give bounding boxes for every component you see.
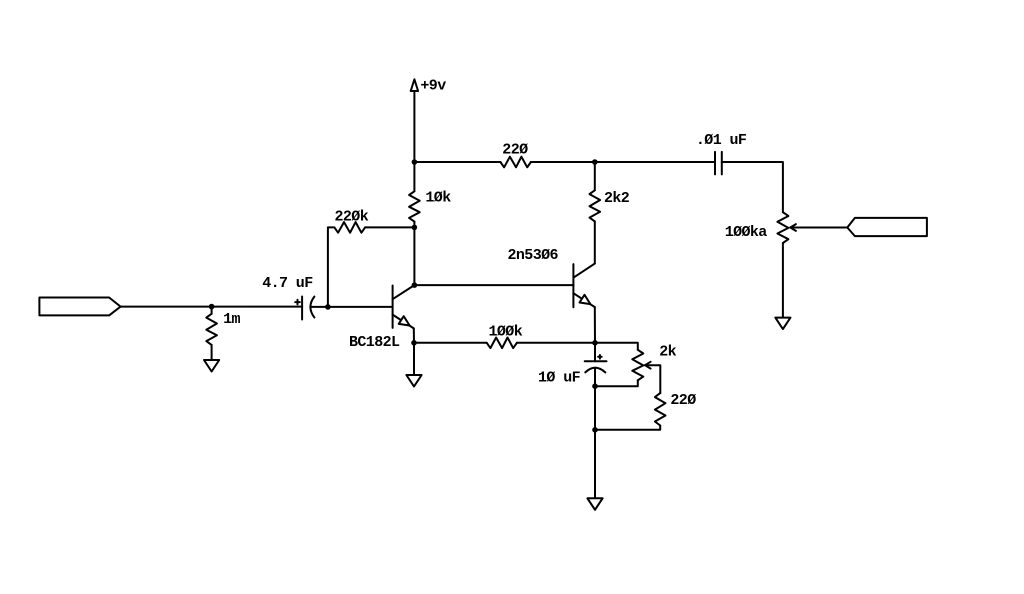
svg-text:1Ø uF: 1Ø uF <box>538 370 581 387</box>
wire 220 bottom to node <box>595 426 660 430</box>
svg-text:1m: 1m <box>223 311 240 328</box>
ground (input 1m) <box>204 360 219 372</box>
wire 220k down to base node <box>328 227 335 307</box>
wire node to 220k <box>365 226 414 228</box>
wire 220 to cap .01uF <box>531 161 715 163</box>
resistor 10k (vertical) <box>409 191 420 221</box>
svg-text:22Øk: 22Øk <box>335 208 369 225</box>
wire 10k to collector node <box>413 222 415 286</box>
capacitor .01 uF <box>715 152 722 175</box>
wire pot bottom to ground <box>782 243 784 318</box>
resistor 220 (bottom, vertical) <box>655 393 666 425</box>
wire 2n5306 emitter down <box>594 307 596 343</box>
wire emitter node to 100k <box>414 342 487 344</box>
svg-text:22Ø: 22Ø <box>502 142 528 159</box>
pot 2k wiper arrow <box>645 362 660 393</box>
resistor 220k (horizontal) <box>334 222 365 233</box>
wire node to 1m <box>211 307 213 314</box>
node emitter 2n5306 <box>592 340 598 346</box>
input connector <box>39 298 120 316</box>
wire base to transistor <box>328 306 393 308</box>
resistor 220 (top, horizontal) <box>500 157 531 168</box>
svg-text:1Øk: 1Øk <box>425 189 451 206</box>
node emitter BC182L <box>411 340 417 346</box>
svg-text:BC182L: BC182L <box>349 334 400 351</box>
resistor 100k (horizontal) <box>487 338 517 349</box>
node input / 1m <box>209 304 215 310</box>
wire node to 2k pot top <box>595 343 638 350</box>
capacitor 4.7 uF (polarized) <box>295 297 314 320</box>
wire bottom node chain <box>594 386 596 498</box>
svg-text:1ØØk: 1ØØk <box>489 323 523 340</box>
wire input to cap 4.7uF <box>121 306 303 308</box>
resistor 2k2 (vertical) <box>590 190 601 221</box>
output connector <box>847 218 927 236</box>
wire 2n5306 collector to 2k2 <box>594 221 596 263</box>
node base BC182L <box>325 304 331 310</box>
ground (emitter network) <box>587 498 602 510</box>
wire cap to base node <box>310 306 328 308</box>
wire cap to pot top <box>722 162 783 212</box>
ground (output pot) <box>775 318 790 330</box>
transistor BC182L <box>393 285 415 328</box>
wire 10uF to bottom node <box>594 369 596 386</box>
potentiometer 2k (element) <box>632 350 643 381</box>
wire emitter down <box>413 328 415 342</box>
node bottom junction <box>592 427 598 433</box>
wire 1m to ground <box>211 345 213 360</box>
svg-text:.Ø1 uF: .Ø1 uF <box>696 132 747 149</box>
wire 100k to emitter node 2n5306 <box>517 342 595 344</box>
svg-text:2k2: 2k2 <box>604 190 630 207</box>
node collector BC182L <box>412 282 418 288</box>
node top rail / 2k2 <box>592 159 598 165</box>
svg-text:22Ø: 22Ø <box>670 392 696 409</box>
potentiometer 100ka (element) <box>777 212 788 243</box>
pot 100ka wiper arrow <box>790 224 847 231</box>
wire 2k bottom to cap node <box>595 380 638 386</box>
transistor 2n5306 <box>573 264 594 308</box>
resistor 1m (vertical) <box>206 314 217 345</box>
node 10k / 220k junction <box>412 225 418 231</box>
capacitor 10 uF (polarized) <box>585 355 607 372</box>
svg-text:2n53Ø6: 2n53Ø6 <box>508 247 559 264</box>
svg-text:4.7 uF: 4.7 uF <box>262 275 313 292</box>
svg-text:+9v: +9v <box>420 78 446 95</box>
node 10uF bottom / 2k bottom <box>592 383 598 389</box>
node top rail / 10k <box>412 159 418 165</box>
wire 2k2 to top rail <box>594 162 596 190</box>
wire top rail left (node to 220) <box>414 161 500 163</box>
wire emitter to ground <box>413 343 415 375</box>
power +9v symbol (up triangle) <box>411 79 418 91</box>
svg-text:2k: 2k <box>659 343 676 360</box>
wire node down to 10uF <box>594 343 596 361</box>
ground (BC182L emitter) <box>406 375 421 387</box>
wire +9v rail down to 10k <box>413 91 415 191</box>
svg-text:1ØØka: 1ØØka <box>725 224 768 241</box>
wire collector to 2n5306 base <box>414 284 573 286</box>
